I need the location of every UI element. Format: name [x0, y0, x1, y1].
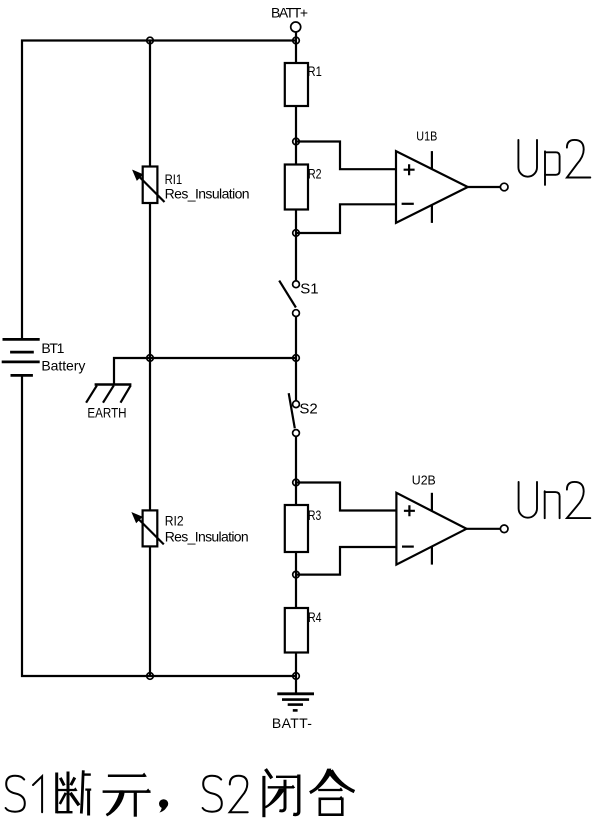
resistor RI2 [132, 510, 164, 546]
wire U2B output [467, 528, 501, 530]
wire R4 to ground [295, 653, 297, 694]
wire U1B output [468, 186, 501, 188]
junction (296,358) [293, 355, 300, 362]
svg-text:U1B: U1B [416, 129, 437, 144]
caption S2 [203, 776, 248, 813]
terminal BATT+ [291, 22, 301, 32]
caption S1 [6, 776, 43, 813]
svg-text:S1: S1 [300, 281, 318, 298]
earth symbol [86, 385, 131, 403]
wire RI2 branch lower [149, 546, 151, 676]
resistor R2 [285, 165, 308, 210]
junction (296,233) [293, 230, 300, 237]
wire left vertical lower + bottom rail [22, 375, 296, 676]
junction (150,40.5) [147, 37, 154, 44]
svg-text:S2: S2 [299, 401, 317, 418]
svg-text:R3: R3 [308, 507, 321, 523]
svg-text:Res_Insulation: Res_Insulation [165, 529, 249, 545]
wire BATT+ stub [295, 32, 297, 63]
junction (296,141.5) [293, 138, 300, 145]
wire U2B minus input [296, 547, 396, 575]
svg-text:U2B: U2B [412, 473, 436, 487]
junction (150,676) [147, 673, 154, 680]
wire R3 to R4 [295, 552, 297, 608]
wire S2 to R3 [295, 436, 297, 505]
hanzi he [310, 770, 355, 815]
label Un2 [519, 482, 591, 518]
hanzi duan [57, 770, 91, 815]
terminal Un2 output [500, 525, 508, 533]
svg-text:BATT-: BATT- [272, 715, 312, 731]
junction (296,574.6) [293, 571, 300, 578]
resistor R3 [285, 505, 308, 552]
switch S2 [289, 393, 300, 436]
wire RI2 branch upper [149, 358, 151, 510]
resistor R4 [285, 608, 308, 653]
comma [159, 799, 168, 812]
svg-text:R1: R1 [308, 64, 322, 79]
wire mid rail to S2 [295, 358, 297, 401]
wire RI1 branch upper [149, 41, 151, 167]
junction (296,676) [293, 673, 300, 680]
resistor R1 [285, 63, 308, 106]
wire R1 to R2 [295, 106, 297, 165]
wire middle rail + earth stem [114, 358, 296, 385]
svg-text:Battery: Battery [41, 358, 85, 374]
hanzi kai [103, 776, 151, 817]
svg-text:R4: R4 [308, 610, 322, 626]
junction (296,40.5) [293, 37, 300, 44]
wire U1B plus input [296, 142, 396, 170]
wire R2 to S1 [295, 210, 297, 282]
junction (296,482.5) [293, 479, 300, 486]
resistor RI1 [133, 167, 165, 204]
hanzi bi [264, 769, 299, 817]
battery BT1 [2, 339, 40, 375]
wire top rail + left vertical upper [22, 41, 296, 340]
svg-text:BATT+: BATT+ [271, 5, 308, 21]
ground BATT- symbol [277, 694, 314, 711]
op-amp U1B [396, 151, 468, 223]
wire U2B plus input [296, 483, 396, 511]
svg-text:Res_Insulation: Res_Insulation [165, 186, 250, 202]
wire S1 to mid rail [295, 317, 297, 359]
wire U1B minus input [296, 204, 396, 233]
switch S1 [279, 281, 299, 317]
svg-text:RI2: RI2 [165, 513, 184, 529]
svg-text:BT1: BT1 [41, 340, 64, 356]
terminal Up2 output [500, 183, 508, 191]
svg-text:R2: R2 [308, 166, 322, 182]
junction (150,358) [147, 355, 154, 362]
label Up2 [518, 140, 590, 185]
wire RI1 branch lower [149, 203, 151, 358]
svg-text:EARTH: EARTH [87, 405, 126, 421]
op-amp U2B [396, 493, 466, 565]
